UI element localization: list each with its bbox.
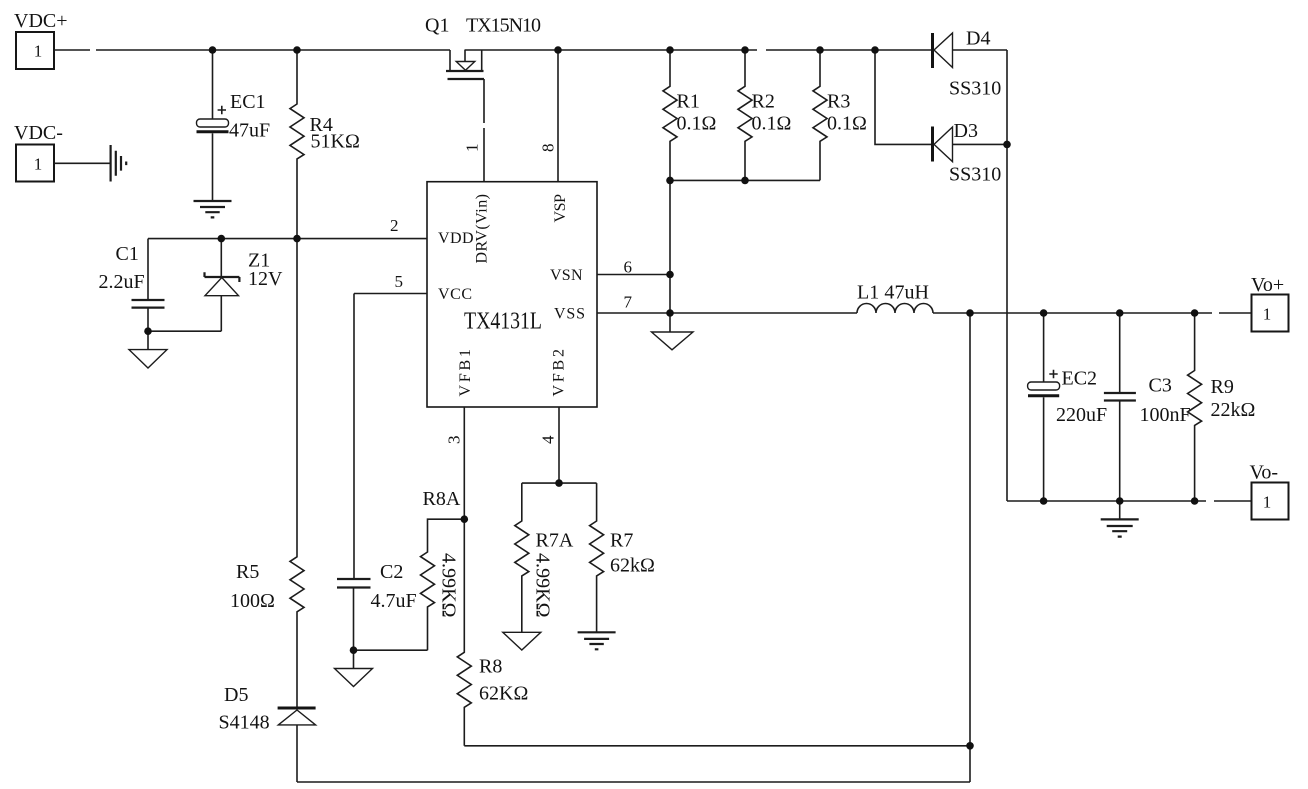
- wire VDC+ to top rail: [54, 49, 450, 51]
- svg-text:VDD: VDD: [438, 230, 474, 247]
- node R2 top: [741, 46, 749, 54]
- capacitor C3: [1104, 313, 1191, 501]
- svg-text:1: 1: [463, 144, 482, 153]
- ground triangle at C2: [335, 650, 373, 686]
- capacitor EC1: [197, 50, 271, 201]
- node R1 top: [666, 46, 674, 54]
- svg-text:0.1Ω: 0.1Ω: [752, 113, 792, 135]
- wire pin 6: [597, 274, 670, 276]
- svg-text:R2: R2: [752, 91, 775, 113]
- resistor R5: [230, 239, 304, 707]
- svg-text:4.99KΩ: 4.99KΩ: [438, 553, 460, 618]
- svg-text:100nF: 100nF: [1140, 404, 1191, 426]
- node R4 bottom: [293, 235, 301, 243]
- wire VCC drop to C2: [353, 294, 355, 580]
- svg-text:D3: D3: [954, 120, 978, 142]
- wire R7A R7 top: [522, 482, 597, 484]
- svg-text:R7A: R7A: [536, 530, 574, 552]
- svg-text:EC1: EC1: [230, 91, 266, 113]
- svg-text:VDC+: VDC+: [14, 10, 68, 32]
- diode D5: [219, 684, 316, 782]
- wire R8 to output column: [464, 745, 970, 747]
- capacitor EC2: [1028, 313, 1108, 501]
- node D3 anode: [1003, 141, 1011, 149]
- svg-text:3: 3: [445, 436, 464, 445]
- wire pin 3 lead: [463, 407, 465, 519]
- svg-text:D5: D5: [224, 684, 248, 706]
- node R4 top: [293, 46, 301, 54]
- wire pin 5 VCC: [354, 293, 427, 295]
- svg-text:R3: R3: [827, 91, 850, 113]
- wire pin 4 lead: [558, 407, 560, 483]
- svg-text:220uF: 220uF: [1056, 404, 1107, 426]
- ground earth at C3: [1101, 501, 1139, 537]
- wire diode column down to Vo- rail: [1006, 50, 1008, 501]
- resistor R9: [1188, 313, 1256, 501]
- resistor R1: [663, 50, 716, 180]
- resistor R8A: [421, 488, 465, 650]
- wire D3 branch: [875, 50, 931, 144]
- node C1 bottom: [144, 327, 152, 335]
- resistor R3: [813, 50, 867, 180]
- resistor R2: [738, 50, 791, 180]
- svg-text:C2: C2: [380, 561, 403, 583]
- wire sense bottom rail: [670, 179, 820, 181]
- svg-text:VSP: VSP: [552, 194, 569, 223]
- wire C1 to Z1 bottom: [148, 330, 221, 332]
- svg-text:2.2uF: 2.2uF: [99, 271, 145, 293]
- node C3 top: [1116, 309, 1124, 317]
- diode D3: [933, 120, 1008, 186]
- svg-text:R9: R9: [1211, 376, 1234, 398]
- resistor R4: [290, 50, 360, 239]
- wire bottom feedback line: [297, 781, 970, 783]
- wire VDD line: [148, 238, 427, 240]
- diode D4: [933, 28, 1008, 100]
- svg-text:1: 1: [1263, 493, 1272, 512]
- svg-text:1: 1: [1263, 305, 1272, 324]
- svg-text:5: 5: [395, 272, 404, 291]
- svg-text:Vo+: Vo+: [1251, 274, 1284, 296]
- svg-text:100Ω: 100Ω: [230, 590, 275, 612]
- wire Vo- rail: [1007, 500, 1252, 502]
- node pin3 split: [461, 515, 469, 523]
- node C2 bottom: [350, 646, 358, 654]
- zener Z1: [205, 239, 284, 332]
- svg-text:R8: R8: [479, 656, 502, 678]
- ground earth at VDC-: [111, 145, 127, 182]
- svg-text:4.99KΩ: 4.99KΩ: [532, 553, 554, 618]
- wire L1 to Vo+: [933, 312, 1252, 314]
- node pin8 rail: [554, 46, 562, 54]
- wire pin 7 VSS: [597, 312, 857, 314]
- resistor R7: [590, 483, 655, 632]
- node L1 out: [966, 309, 974, 317]
- port Vo-: [1250, 462, 1289, 520]
- wire top rail right of Q1: [465, 49, 932, 51]
- node Z1 top: [218, 235, 226, 243]
- svg-text:VDC-: VDC-: [14, 122, 63, 144]
- svg-text:C3: C3: [1149, 375, 1172, 397]
- svg-text:TX15N10: TX15N10: [466, 15, 541, 37]
- inductor L1: [857, 282, 933, 314]
- svg-text:22kΩ: 22kΩ: [1211, 399, 1256, 421]
- svg-text:1: 1: [34, 155, 43, 174]
- svg-text:4: 4: [539, 435, 558, 444]
- svg-text:Q1: Q1: [425, 15, 449, 37]
- svg-text:R1: R1: [677, 91, 700, 113]
- svg-text:8: 8: [539, 144, 558, 153]
- node EC2 top: [1040, 309, 1048, 317]
- svg-text:VSN: VSN: [550, 267, 583, 284]
- node D3 branch: [871, 46, 879, 54]
- node R3 top: [816, 46, 824, 54]
- ground triangle at C1: [129, 331, 167, 368]
- node R9 top: [1191, 309, 1199, 317]
- svg-text:S4148: S4148: [219, 712, 270, 734]
- node C3 bottom: [1116, 497, 1124, 505]
- node pin4 split: [555, 479, 563, 487]
- svg-text:6: 6: [624, 258, 633, 277]
- node VSS: [666, 309, 674, 317]
- ground earth at EC1: [194, 201, 232, 217]
- svg-text:VSS: VSS: [554, 306, 585, 323]
- svg-text:0.1Ω: 0.1Ω: [677, 113, 717, 135]
- svg-text:C1: C1: [116, 243, 139, 265]
- node VSN: [666, 271, 674, 279]
- svg-text:Vo-: Vo-: [1250, 462, 1279, 484]
- svg-text:62kΩ: 62kΩ: [610, 555, 655, 577]
- transistor Q1: [425, 15, 541, 182]
- node R9 bottom: [1191, 497, 1199, 505]
- svg-text:0.1Ω: 0.1Ω: [827, 113, 867, 135]
- svg-text:7: 7: [624, 293, 633, 312]
- node R1 bottom: [666, 177, 674, 185]
- node EC2 bottom: [1040, 497, 1048, 505]
- ground earth at R7: [578, 632, 616, 649]
- svg-text:51KΩ: 51KΩ: [311, 131, 360, 153]
- svg-text:1: 1: [34, 42, 43, 61]
- ground triangle at R7A: [503, 632, 541, 650]
- svg-text:R8A: R8A: [423, 488, 461, 510]
- svg-text:12V: 12V: [248, 268, 283, 290]
- wire VSN drop: [669, 180, 671, 313]
- svg-text:DRV(Vin): DRV(Vin): [474, 194, 491, 264]
- svg-text:L1 47uH: L1 47uH: [857, 282, 929, 304]
- svg-text:62KΩ: 62KΩ: [479, 683, 528, 705]
- ground triangle at VSS: [652, 313, 694, 350]
- resistor R8: [457, 519, 528, 746]
- capacitor C1: [99, 239, 165, 332]
- node R2 bottom: [741, 177, 749, 185]
- node EC1 top: [209, 46, 217, 54]
- port VDC+: [14, 10, 68, 69]
- port VDC-: [14, 122, 63, 182]
- svg-text:VCC: VCC: [438, 286, 472, 303]
- svg-text:EC2: EC2: [1062, 368, 1098, 390]
- svg-text:R7: R7: [610, 530, 633, 552]
- port Vo+: [1251, 274, 1289, 332]
- svg-text:TX4131L: TX4131L: [464, 309, 542, 335]
- svg-text:SS310: SS310: [949, 78, 1001, 100]
- resistor R7A: [515, 483, 574, 632]
- wire C2 to R8A: [354, 649, 428, 651]
- svg-text:D4: D4: [966, 28, 990, 50]
- svg-text:2: 2: [390, 216, 399, 235]
- wire output feedback column: [969, 313, 971, 782]
- svg-text:SS310: SS310: [949, 164, 1001, 186]
- wire VDC- to ground: [54, 162, 110, 164]
- svg-text:47uF: 47uF: [229, 120, 270, 142]
- wire pin 8 lead: [557, 50, 559, 182]
- svg-text:R5: R5: [236, 561, 259, 583]
- capacitor C2: [337, 561, 417, 650]
- op-amp U1 TX4131L: [427, 182, 597, 407]
- svg-text:4.7uF: 4.7uF: [371, 590, 417, 612]
- node feedback corner: [966, 742, 974, 750]
